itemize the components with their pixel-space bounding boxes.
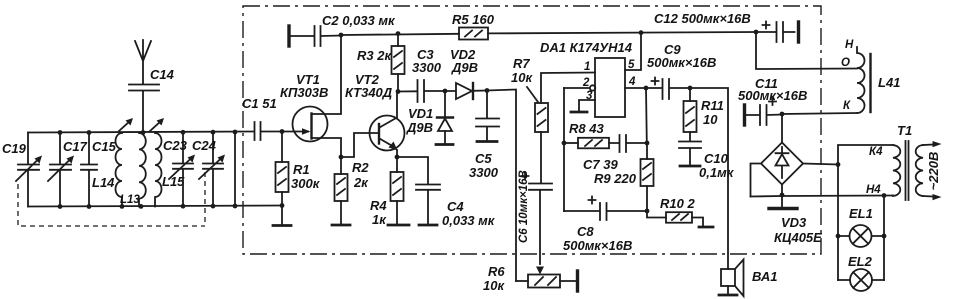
svg-text:L13: L13 [120, 194, 140, 206]
terminal of R6 [576, 271, 579, 291]
wire winding K4 lead [838, 145, 893, 165]
node dots tank bottom bus [58, 204, 238, 209]
ground of R2 [332, 224, 350, 227]
transformer T1 core [906, 141, 909, 200]
transformer T1 primary winding [866, 123, 912, 196]
capacitor C24 [192, 133, 225, 207]
svg-text:3300: 3300 [412, 60, 442, 75]
ground of R4 [388, 224, 409, 227]
svg-text:C5: C5 [475, 151, 492, 166]
capacitor C23 [163, 133, 195, 207]
capacitor C17 [48, 133, 88, 207]
capacitor C14 [129, 67, 175, 132]
svg-text:С10: С10 [704, 151, 729, 166]
pin 3 [579, 90, 595, 111]
resistor R7 [511, 56, 595, 132]
svg-text:500мк×16В: 500мк×16В [647, 55, 716, 70]
node H4 lamp tap [882, 193, 887, 198]
ground of C4 [419, 224, 437, 227]
svg-text:R9 220: R9 220 [594, 171, 637, 186]
svg-text:К4: К4 [869, 146, 883, 158]
svg-text:Д9В: Д9В [406, 120, 433, 135]
svg-text:1: 1 [584, 61, 590, 73]
ground of R1 [273, 224, 291, 227]
pin 4 [625, 76, 646, 88]
node lamp right [882, 234, 887, 239]
svg-text:~220В: ~220В [926, 152, 941, 191]
capacitor C4 [397, 157, 496, 228]
capacitor C1 [242, 96, 308, 140]
node collector [396, 89, 401, 94]
svg-text:C15: C15 [92, 139, 117, 154]
wire output to speaker [690, 88, 728, 269]
svg-text:Т1: Т1 [897, 123, 912, 138]
wire base link [341, 133, 379, 157]
svg-text:C17: C17 [63, 139, 88, 154]
mains connection ~220V [923, 141, 942, 200]
svg-text:К: К [843, 100, 851, 112]
svg-text:C1 51: C1 51 [242, 96, 277, 111]
capacitor C7 [583, 135, 647, 172]
svg-text:2: 2 [582, 77, 590, 89]
wire rectifier right to transformer [803, 164, 838, 165]
inductor L15 [155, 133, 185, 207]
svg-text:3300: 3300 [469, 165, 499, 180]
svg-text:О: О [841, 57, 850, 69]
svg-text:0,033 мк: 0,033 мк [442, 213, 496, 228]
node fb mid [645, 141, 650, 146]
node transformer return [780, 193, 785, 198]
resistor R3 [357, 34, 405, 92]
svg-text:10к: 10к [511, 70, 533, 85]
svg-text:2к: 2к [353, 175, 369, 190]
svg-text:500мк×16В: 500мк×16В [563, 238, 632, 253]
lamp EL2 [848, 254, 873, 291]
resistor R4 [370, 157, 404, 227]
svg-text:Д9В: Д9В [451, 60, 478, 75]
wire lamps left vertical [837, 165, 839, 281]
svg-text:5: 5 [628, 59, 635, 71]
bridge rectifier VD3 [761, 143, 822, 246]
capacitor C9 [646, 42, 716, 99]
svg-text:R11: R11 [701, 98, 724, 113]
svg-text:КТ340Д: КТ340Д [345, 85, 393, 100]
svg-text:R4: R4 [370, 198, 387, 213]
svg-text:VD3: VD3 [781, 215, 807, 230]
node fb top [562, 141, 567, 146]
svg-text:3: 3 [586, 90, 593, 102]
svg-text:R1: R1 [293, 162, 310, 177]
gang coupling dashed link [18, 172, 205, 226]
pin 2 [564, 77, 595, 91]
resistor R8 [564, 121, 609, 148]
svg-text:R6: R6 [488, 264, 505, 279]
node dots tank top bus [58, 130, 238, 135]
svg-text:VD1: VD1 [408, 106, 433, 121]
node rail R3 [396, 31, 401, 36]
wire tank top bus [28, 132, 253, 133]
node rail C12 [754, 30, 759, 35]
ground of C10 [680, 165, 700, 168]
resistor R1 [276, 132, 321, 225]
node C9 out [688, 86, 693, 91]
ground of C5 [477, 140, 497, 143]
inductor L41 [841, 39, 900, 113]
svg-text:C4: C4 [447, 199, 464, 214]
inductor L14 [92, 133, 122, 207]
wire top rail [341, 32, 756, 35]
capacitor C6 [518, 132, 552, 243]
svg-text:0,1мк: 0,1мк [699, 165, 735, 180]
wire lamps right vertical [883, 196, 885, 281]
svg-text:С6 10мк×16В: С6 10мк×16В [518, 170, 530, 243]
wire rectifier bottom to ground [781, 185, 783, 208]
capacitor C12 with output terminal [654, 11, 799, 42]
capacitor C2 with input terminal [289, 13, 396, 46]
svg-text:10к: 10к [483, 278, 505, 293]
svg-text:C14: C14 [150, 67, 175, 82]
node output [644, 86, 649, 91]
svg-text:L14: L14 [92, 175, 115, 190]
resistor R11 [684, 88, 724, 132]
ground of pin 3 [571, 111, 587, 114]
ground of VD3 [769, 207, 797, 210]
svg-text:EL2: EL2 [848, 254, 873, 269]
node fb bottom [645, 209, 650, 214]
loudspeaker BA1 [721, 260, 778, 297]
resistor R9 [594, 143, 654, 211]
svg-text:C24: C24 [192, 138, 217, 153]
svg-text:КП303В: КП303В [280, 85, 328, 100]
wire pin2 feedback vertical [563, 88, 565, 211]
node VT2 emitter [395, 155, 400, 160]
svg-text:Н: Н [845, 39, 854, 51]
svg-text:L15: L15 [162, 174, 185, 189]
svg-text:1к: 1к [372, 212, 387, 227]
node B tank to ground [280, 203, 285, 208]
antenna WA1 [135, 40, 151, 84]
tuning arrow of L15 core [150, 118, 164, 131]
node VT1 source / R2 / VT2 base [339, 155, 344, 160]
svg-text:C2 0,033 мк: C2 0,033 мк [322, 13, 396, 28]
svg-text:КЦ405Е: КЦ405Е [774, 230, 822, 245]
inductor L13 [120, 133, 146, 207]
svg-text:L41: L41 [878, 75, 900, 90]
resistor R2 [335, 157, 370, 224]
ground of BA1 [719, 294, 737, 297]
potentiometer R6 [483, 190, 577, 293]
node detector out [485, 88, 490, 93]
wire tank right vertical [234, 132, 236, 207]
svg-text:С12 500мк×16В: С12 500мк×16В [654, 11, 751, 26]
transformer T1 secondary winding [916, 145, 923, 196]
node AC right [836, 162, 841, 167]
svg-text:C23: C23 [163, 138, 188, 153]
svg-text:ВА1: ВА1 [752, 269, 778, 284]
svg-text:C7 39: C7 39 [583, 157, 618, 172]
svg-text:R8 43: R8 43 [569, 121, 604, 136]
wire coil bottom to rectifier [782, 113, 857, 142]
resistor R10 [647, 196, 703, 226]
ground of R10 [699, 226, 713, 229]
diode VD2 [445, 47, 487, 99]
node rail-drain [339, 33, 344, 38]
transistor VT2 [345, 72, 405, 157]
wire detector to volume pot [487, 90, 516, 282]
capacitor C11 with terminal [738, 76, 807, 125]
svg-text:4: 4 [628, 76, 636, 88]
diode VD1 [406, 91, 453, 143]
op-amp IC DA1 [540, 40, 633, 117]
lamp EL1 [849, 206, 873, 247]
svg-text:С8: С8 [577, 224, 594, 239]
wire rectifier left to minus bus [751, 164, 762, 197]
svg-text:EL1: EL1 [849, 206, 873, 221]
capacitor C8 [563, 197, 647, 254]
node C3 out [443, 89, 448, 94]
pin 5 [625, 33, 641, 71]
wire rail tap to coil [756, 32, 857, 69]
wire winding H4 lead [751, 196, 894, 197]
svg-text:R5 160: R5 160 [452, 12, 495, 27]
svg-text:DA1 К174УН14: DA1 К174УН14 [540, 40, 633, 55]
svg-text:500мк×16В: 500мк×16В [738, 88, 807, 103]
capacitor C5 [469, 91, 499, 181]
svg-text:R10 2: R10 2 [660, 196, 695, 211]
capacitor C15 [81, 133, 117, 207]
resistor R5 [452, 12, 495, 40]
tuning arrow of L13 core [119, 118, 133, 131]
capacitor C19 [2, 133, 42, 207]
svg-text:10: 10 [703, 112, 718, 127]
ground of VD1 [436, 143, 453, 146]
svg-text:C19: C19 [2, 141, 27, 156]
wire output to fb [645, 88, 648, 143]
svg-text:R2: R2 [352, 160, 369, 175]
svg-text:Н4: Н4 [866, 184, 881, 196]
svg-text:R7: R7 [513, 56, 530, 71]
PCB boundary dash-dot frame [243, 6, 821, 254]
capacitor C10 [679, 132, 735, 180]
svg-text:300к: 300к [291, 176, 321, 191]
node A gate [280, 129, 285, 134]
capacitor C3 [398, 47, 445, 102]
wire tank bottom bus [28, 206, 282, 207]
node C11 junction [780, 112, 785, 117]
svg-text:R3 2к: R3 2к [357, 48, 392, 63]
node lamp left [836, 234, 841, 239]
node rail pin5 [639, 30, 644, 35]
transistor VT1 [280, 36, 341, 158]
